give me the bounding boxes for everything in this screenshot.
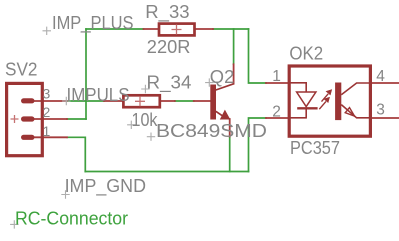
optocoupler OK2 box	[289, 66, 370, 136]
wire SV2 pin1 down	[67, 137, 85, 171]
label anchor cross IMPULS	[62, 97, 70, 105]
pin OK2-4 stub	[372, 82, 399, 84]
pin Q2 base stub	[194, 100, 211, 102]
Q2 collector diagonal	[216, 84, 234, 90]
wire IMP_PLUS trunk	[86, 28, 144, 30]
origin cross R34	[135, 96, 145, 106]
svg-text:BC849SMD: BC849SMD	[156, 121, 267, 141]
pin R34 left stub	[104, 100, 124, 102]
pin SV2-3 stub	[30, 100, 67, 102]
Q2 emitter diagonal	[216, 111, 224, 116]
wire vertical SV2 pin2 to IMP_PLUS	[85, 29, 87, 119]
origin cross R33	[172, 25, 182, 35]
Q2 base bar	[210, 85, 216, 120]
OK2 phototransistor base bar	[335, 83, 341, 121]
svg-text:3: 3	[43, 86, 51, 102]
OK2 phototransistor collector	[341, 83, 370, 95]
label anchor cross R_34	[141, 85, 149, 93]
wire IMP_GND	[85, 171, 248, 173]
OK2 light arrow 2	[319, 101, 326, 109]
svg-text:PC357: PC357	[290, 138, 340, 158]
OK2 LED cathode feed	[289, 108, 307, 118]
connector SV2 box	[7, 83, 43, 155]
svg-text:RC-Connector: RC-Connector	[15, 208, 128, 228]
svg-text:Q2: Q2	[210, 67, 235, 87]
svg-text:2: 2	[272, 104, 281, 121]
label anchor cross RC-Connector	[10, 220, 18, 228]
pin OK2-1 stub	[266, 82, 288, 84]
svg-text:R_33: R_33	[145, 2, 189, 23]
pin R33 left stub	[144, 28, 160, 30]
label anchor cross IMP_GND	[61, 190, 69, 198]
label anchor cross IMP_PLUS text	[43, 27, 52, 35]
connector SV2 pad pin2	[21, 116, 35, 121]
svg-text:3: 3	[376, 102, 385, 119]
OK2 LED cathode bar	[297, 107, 317, 109]
wire IMPULS	[67, 100, 104, 102]
svg-text:IMP_PLUS: IMP_PLUS	[52, 13, 134, 34]
svg-text:R_34: R_34	[147, 73, 192, 94]
svg-text:OK2: OK2	[289, 44, 323, 64]
svg-text:IMPULS: IMPULS	[67, 85, 130, 105]
pin SV2-1 stub	[30, 136, 67, 138]
pin Q2 emitter stub	[229, 119, 231, 137]
resistor R34 body	[123, 95, 159, 107]
transistor Q2	[210, 84, 233, 120]
wire OK2 pin2 to gnd	[249, 118, 267, 172]
connector SV2 pad pin1	[21, 135, 35, 140]
pin OK2-2 stub	[266, 117, 288, 119]
wire SV2 pin2 horizontal	[67, 118, 86, 120]
label anchor cross BC849SMD	[147, 133, 155, 141]
wire R33 to junction	[213, 28, 249, 30]
pin R33 right stub	[195, 28, 214, 30]
svg-text:1: 1	[43, 123, 51, 139]
wire down to OK2 pin1	[249, 29, 267, 83]
svg-text:10k: 10k	[132, 110, 159, 130]
OK2 phototransistor emitter	[341, 105, 370, 118]
origin cross SV2	[11, 115, 19, 123]
label anchor cross Q2	[205, 78, 213, 86]
OK2 LED triangle	[297, 92, 316, 107]
wire emitter drop	[229, 137, 231, 172]
svg-text:2: 2	[43, 104, 51, 120]
OK2 LED anode feed	[289, 83, 306, 92]
pin SV2-2 stub	[30, 118, 67, 120]
Q2 emitter arrow	[220, 110, 230, 119]
label anchor dash IMP_PLUS wire	[80, 31, 91, 33]
resistor R33 body	[159, 24, 195, 36]
wire base net	[175, 100, 194, 102]
pin R34 right stub	[160, 100, 175, 102]
connector SV2 pad pin3	[21, 98, 35, 103]
svg-text:SV2: SV2	[5, 59, 38, 79]
wire collector drop	[233, 29, 235, 64]
OK2 emitter arrowhead	[345, 108, 354, 117]
pin Q2 collector stub	[233, 64, 235, 83]
pin OK2-3 stub	[372, 117, 399, 119]
svg-text:220R: 220R	[147, 37, 191, 57]
OK2 light arrow 1	[322, 94, 329, 102]
label anchor cross 10k	[127, 121, 135, 129]
svg-text:1: 1	[272, 68, 281, 85]
svg-text:4: 4	[376, 68, 385, 85]
svg-text:IMP_GND: IMP_GND	[65, 176, 146, 197]
